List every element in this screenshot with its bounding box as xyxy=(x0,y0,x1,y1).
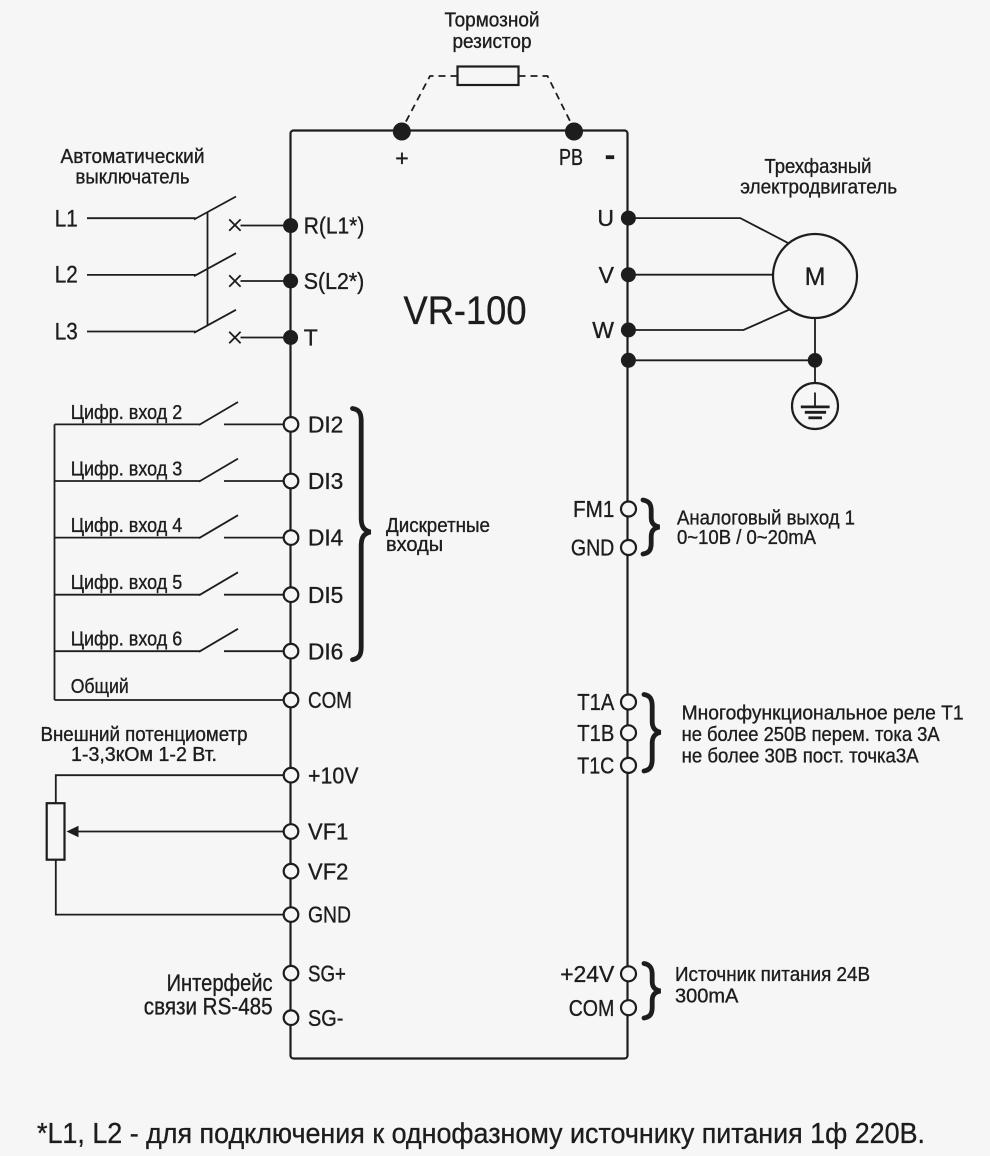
terminal +24V xyxy=(621,966,636,981)
svg-text:FM1: FM1 xyxy=(573,496,614,522)
wire L1 out xyxy=(241,225,291,227)
wire V to motor xyxy=(628,274,773,276)
svg-text:электродвигатель: электродвигатель xyxy=(740,177,897,199)
inverter VR-100 main box xyxy=(291,131,628,1059)
svg-text:COM: COM xyxy=(308,687,352,713)
wire dashed right to PB xyxy=(519,76,575,129)
svg-text:входы: входы xyxy=(386,534,443,556)
svg-text:DI2: DI2 xyxy=(308,412,343,438)
node PE terminal xyxy=(621,353,636,368)
svg-text:Цифр. вход 3: Цифр. вход 3 xyxy=(71,459,183,481)
terminal VF2 xyxy=(284,864,299,879)
svg-text:VR-100: VR-100 xyxy=(404,289,527,333)
svg-text:L3: L3 xyxy=(55,319,78,346)
svg-text:T1C: T1C xyxy=(577,753,614,779)
svg-text:S(L2*): S(L2*) xyxy=(304,268,365,294)
wire DI2 in xyxy=(55,423,201,425)
wire DI6 in xyxy=(55,650,201,652)
wire DI2 out xyxy=(224,423,285,425)
svg-text:DI4: DI4 xyxy=(308,525,344,551)
wire L1 in xyxy=(87,217,196,219)
terminal DI5 xyxy=(284,587,299,602)
svg-text:SG+: SG+ xyxy=(308,960,346,986)
breaker mechanical link xyxy=(207,213,209,325)
node W terminal xyxy=(621,323,636,338)
label minus xyxy=(606,155,614,159)
wire motor to junction xyxy=(814,318,816,360)
svg-text:W: W xyxy=(592,317,614,343)
svg-text:Цифр. вход 5: Цифр. вход 5 xyxy=(71,572,183,594)
svg-text:DI5: DI5 xyxy=(308,582,343,608)
breaker contact x 1 xyxy=(229,219,240,230)
wire DI6 out xyxy=(224,650,285,652)
svg-text:0~10В / 0~20mA: 0~10В / 0~20mA xyxy=(677,527,817,549)
node + terminal xyxy=(393,123,411,141)
svg-text:Цифр. вход 2: Цифр. вход 2 xyxy=(71,402,183,424)
svg-text:Трехфазный: Трехфазный xyxy=(765,156,872,178)
switch DI3 blade xyxy=(199,459,238,482)
terminal +10V xyxy=(284,768,299,783)
terminal DI3 xyxy=(284,474,299,489)
wire U to motor xyxy=(628,218,787,243)
node T terminal xyxy=(283,330,298,345)
wire DI4 out xyxy=(224,537,285,539)
wire GND to pot bottom xyxy=(56,860,285,915)
brace power 24V xyxy=(644,964,661,1019)
svg-text:Цифр. вход 6: Цифр. вход 6 xyxy=(71,628,183,650)
wire DI5 out xyxy=(224,594,285,596)
svg-text:резистор: резистор xyxy=(453,31,532,53)
breaker contact x 2 xyxy=(229,275,240,286)
svg-text:Автоматический: Автоматический xyxy=(61,146,205,168)
terminal DI4 xyxy=(284,530,299,545)
wire +10V to pot top xyxy=(56,775,285,803)
braking resistor body xyxy=(458,67,519,86)
svg-text:VF2: VF2 xyxy=(308,858,348,884)
wire L3 in xyxy=(87,331,196,333)
svg-text:*L1, L2 - для подключения к од: *L1, L2 - для подключения к однофазному … xyxy=(37,1118,925,1150)
svg-text:GND: GND xyxy=(308,902,351,928)
terminal SG- xyxy=(284,1010,299,1025)
breaker pole 1 blade xyxy=(194,197,236,220)
svg-text:L1: L1 xyxy=(55,206,78,233)
node PB terminal xyxy=(565,123,583,141)
terminal T1C xyxy=(621,758,636,773)
svg-text:Цифр. вход 4: Цифр. вход 4 xyxy=(71,515,183,537)
wire DI4 in xyxy=(55,537,201,539)
svg-text:VF1: VF1 xyxy=(308,819,348,845)
arrowhead wiper xyxy=(67,826,79,837)
svg-text:выключатель: выключатель xyxy=(76,167,190,189)
terminal COM xyxy=(284,693,299,708)
svg-text:+10V: +10V xyxy=(308,762,359,788)
potentiometer R body xyxy=(47,803,65,860)
svg-text:1-3,3кОм 1-2 Вт.: 1-3,3кОм 1-2 Вт. xyxy=(71,744,217,766)
svg-text:V: V xyxy=(599,262,615,288)
svg-text:COM: COM xyxy=(569,995,615,1021)
wire W to motor xyxy=(628,310,789,331)
wire DI3 in xyxy=(55,480,201,482)
node S terminal xyxy=(283,274,298,289)
node junction xyxy=(808,353,823,368)
svg-text:R(L1*): R(L1*) xyxy=(304,213,365,239)
svg-text:Источник питания 24В: Источник питания 24В xyxy=(675,964,870,986)
terminal GND analog xyxy=(621,540,636,555)
svg-text:Тормозной: Тормозной xyxy=(445,10,540,32)
svg-text:не более 250В перем. тока 3А: не более 250В перем. тока 3А xyxy=(682,724,941,746)
wire L2 out xyxy=(241,280,291,282)
brace relay T1 xyxy=(644,695,661,772)
wire COM common xyxy=(55,699,286,701)
wire PE to junction xyxy=(628,359,815,361)
brace discrete inputs xyxy=(353,409,371,660)
switch DI6 blade xyxy=(199,629,238,652)
terminal T1B xyxy=(621,725,636,740)
svg-text:T1B: T1B xyxy=(577,720,614,746)
wire DI5 in xyxy=(55,594,201,596)
brace analog output xyxy=(643,500,660,554)
terminal VF1 xyxy=(284,824,299,839)
svg-text:не более 30В пост. точка3А: не более 30В пост. точка3А xyxy=(682,746,920,768)
svg-text:связи RS-485: связи RS-485 xyxy=(144,994,273,1021)
svg-text:GND: GND xyxy=(571,535,614,561)
node R terminal xyxy=(283,218,298,233)
svg-text:PB: PB xyxy=(559,144,583,170)
svg-text:+: + xyxy=(395,145,408,171)
wire junction to ground xyxy=(814,360,816,383)
terminal COM 24 xyxy=(621,1000,636,1015)
terminal T1A xyxy=(621,695,636,710)
wire DI3 out xyxy=(224,480,285,482)
ground protective earth symbol xyxy=(792,383,838,429)
svg-text:SG-: SG- xyxy=(308,1005,343,1031)
svg-text:Общий: Общий xyxy=(71,676,129,698)
switch DI4 blade xyxy=(199,515,238,538)
terminal DI2 xyxy=(284,417,299,432)
wire dashed left to + xyxy=(402,76,458,129)
terminal SG+ xyxy=(284,966,299,981)
svg-text:300mA: 300mA xyxy=(675,986,739,1008)
svg-text:+24V: +24V xyxy=(560,961,615,987)
node U terminal xyxy=(621,211,636,226)
svg-text:T: T xyxy=(304,324,318,350)
svg-text:L2: L2 xyxy=(55,262,78,289)
switch DI5 blade xyxy=(199,572,238,595)
svg-text:Многофункциональное реле Т1: Многофункциональное реле Т1 xyxy=(682,703,964,725)
breaker pole 3 blade xyxy=(194,310,236,333)
wire L2 in xyxy=(87,274,196,276)
svg-text:T1A: T1A xyxy=(577,689,615,715)
svg-text:DI6: DI6 xyxy=(308,638,343,664)
svg-text:Внешний потенциометр: Внешний потенциометр xyxy=(41,724,248,746)
wire L3 out xyxy=(241,337,291,339)
svg-text:DI3: DI3 xyxy=(308,468,343,494)
terminal FM1 xyxy=(621,502,636,517)
node V terminal xyxy=(621,267,636,282)
svg-text:U: U xyxy=(597,205,614,231)
svg-text:M: M xyxy=(805,263,826,291)
switch DI2 blade xyxy=(199,402,238,425)
wire VF1 wiper arrow xyxy=(77,831,285,833)
digital inputs left bus xyxy=(54,424,56,700)
terminal GND xyxy=(284,907,299,922)
terminal DI6 xyxy=(284,644,299,659)
breaker contact x 3 xyxy=(229,332,240,343)
breaker pole 2 blade xyxy=(194,253,236,276)
motor M circle xyxy=(773,234,857,318)
